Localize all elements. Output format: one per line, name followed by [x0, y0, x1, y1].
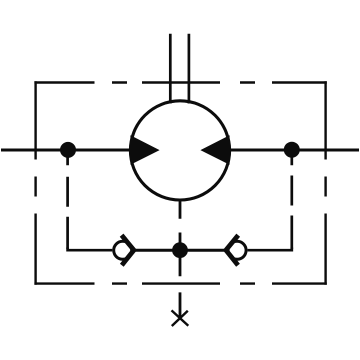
wire: CV1 to node C: [136, 249, 181, 252]
plugged drain port (X symbol): [172, 310, 189, 326]
wire: drain line top-right: [188, 34, 191, 104]
enclosure dashed border left: [34, 81, 36, 284]
wire: corner to check valve CV1: [68, 248, 113, 251]
node B (junction, right): [284, 142, 300, 158]
wire: dashed case drain line (center): [179, 202, 182, 319]
enclosure dashed border top: [34, 81, 326, 83]
enclosure dashed border bottom: [34, 282, 326, 284]
node A (junction, left): [60, 142, 76, 158]
check valve CV2 ball: [228, 241, 246, 259]
wire: port B line (right): [230, 149, 359, 152]
check valve CV1 ball: [114, 241, 132, 259]
wire: dashed pilot line from node A: [66, 150, 69, 249]
check valve CV2 seat: [226, 235, 238, 265]
wire: drain line top-left: [169, 34, 172, 104]
motor flow triangle right: [200, 135, 229, 164]
wire: port A line (left): [1, 149, 130, 152]
wire: node C to CV2: [180, 249, 226, 252]
node C (junction, center drain): [172, 242, 188, 258]
motor flow triangle left: [130, 135, 159, 164]
wire: corner to check valve CV2: [248, 248, 292, 251]
check valve CV1 seat: [122, 235, 134, 265]
hydraulic motor M1 (bidirectional): [130, 101, 229, 200]
enclosure dashed border right: [324, 81, 326, 284]
wire: dashed pilot line from node B: [290, 150, 293, 249]
